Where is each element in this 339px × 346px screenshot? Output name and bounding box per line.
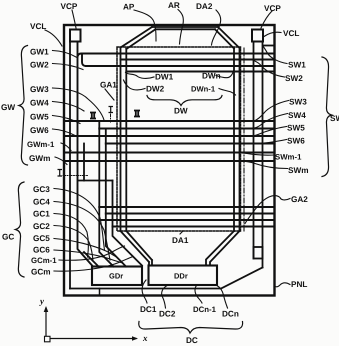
leader GW1 [53, 51, 78, 58]
svg-text:DWn: DWn [202, 72, 221, 81]
svg-text:x: x [142, 333, 148, 343]
panel PNL outline [64, 25, 275, 296]
svg-text:VCP: VCP [264, 4, 281, 13]
leader DA2 [212, 10, 221, 45]
svg-text:AR: AR [168, 1, 180, 10]
leader GC6 [54, 250, 123, 263]
svg-text:GW3: GW3 [30, 85, 49, 94]
leader DA1 [180, 231, 183, 234]
wire stair drop [83, 144, 85, 181]
brace DW [147, 96, 222, 106]
leader GC4 [54, 202, 110, 261]
svg-text:GWm-1: GWm-1 [27, 140, 55, 149]
section line GA2 dash-dot [243, 48, 245, 231]
brace GW [19, 46, 28, 166]
svg-text:GCm: GCm [31, 268, 51, 277]
wire VCL loop right vertical [262, 42, 264, 268]
pad VCP top-right [252, 30, 263, 42]
leader GC1 [54, 214, 88, 258]
svg-text:GC6: GC6 [33, 246, 50, 255]
leader VCP top-right [261, 11, 272, 28]
wire SW3 line [65, 120, 275, 122]
axis y arrow [45, 308, 47, 339]
svg-text:GW2: GW2 [30, 61, 49, 70]
svg-text:SW3: SW3 [289, 98, 307, 107]
array AR left verticals [121, 48, 127, 232]
svg-text:GDr: GDr [109, 272, 123, 281]
wire lower bus 1 [99, 206, 274, 208]
section line I left [63, 175, 88, 177]
wire E x99.3 [99, 121, 113, 267]
svg-text:GW5: GW5 [30, 113, 49, 122]
brace SW [322, 57, 332, 177]
leader AP [134, 10, 156, 41]
leader DC1 [142, 280, 147, 303]
array AR chamfer top-left [121, 27, 156, 49]
wire SW4 line [99, 128, 274, 130]
svg-text:GW: GW [1, 103, 15, 112]
svg-text:SWm-1: SWm-1 [275, 153, 302, 162]
marker I b [109, 107, 114, 113]
svg-text:GC1: GC1 [33, 210, 50, 219]
leader DWn-1 [219, 89, 236, 96]
wire VCL loop diagonal to right [221, 268, 263, 289]
leader AR [178, 10, 183, 45]
svg-text:SW2: SW2 [285, 74, 303, 83]
svg-text:GW1: GW1 [30, 48, 49, 57]
wire SW5 line [65, 135, 275, 137]
leader GCm-1 [59, 246, 125, 260]
section line GA1 dash-dot [110, 114, 112, 122]
leader GA1 [105, 89, 114, 100]
svg-text:SW4: SW4 [288, 111, 306, 120]
wire SW6 line [106, 143, 275, 145]
leader VCP top-left [72, 10, 76, 28]
leader SW3 [254, 101, 289, 122]
wire lower bus 4 [113, 226, 275, 228]
leader SW4 [250, 114, 288, 129]
svg-text:DW1: DW1 [155, 73, 174, 82]
leader DCn [216, 285, 228, 308]
leader GCm [54, 257, 133, 272]
wire GW C x76 [78, 42, 275, 267]
leader SWm [242, 161, 288, 168]
array AR right verticals [234, 48, 240, 231]
svg-text:SWm: SWm [288, 166, 308, 175]
svg-text:DC: DC [186, 336, 198, 345]
wire VCL loop bottom horizontal [70, 288, 221, 290]
svg-text:VCL: VCL [30, 22, 46, 31]
wire VCL loop left vertical [69, 42, 71, 289]
wire lower bus 3 [99, 219, 274, 221]
leader DW1 [126, 73, 155, 79]
pad small right bottom [254, 247, 263, 259]
svg-text:VCL: VCL [283, 29, 299, 38]
display area DA dashed rect [117, 47, 241, 231]
svg-text:DC2: DC2 [159, 310, 176, 319]
wire DW L2 [121, 59, 275, 61]
wire SWm-1 line [65, 152, 275, 154]
wire VCP right inner vertical [253, 42, 255, 259]
svg-text:GC5: GC5 [33, 234, 50, 243]
svg-text:GA2: GA2 [291, 195, 308, 204]
wire G x112.5 [113, 181, 143, 266]
svg-text:DC1: DC1 [140, 305, 157, 314]
brace GC [16, 182, 25, 277]
array AR outline top [152, 27, 218, 29]
leader SW1 [263, 46, 288, 64]
leader GC5 [54, 239, 117, 258]
svg-text:DCn-1: DCn-1 [193, 305, 217, 314]
leader GW5 [53, 116, 81, 124]
svg-text:VCP: VCP [61, 2, 78, 11]
driver GDr box [92, 267, 142, 286]
leader SW5 [246, 127, 287, 137]
svg-text:DCn: DCn [222, 310, 239, 319]
svg-text:SW1: SW1 [288, 61, 306, 70]
svg-text:DDr: DDr [174, 272, 188, 281]
leader DCn-1 [195, 285, 202, 303]
svg-text:GW4: GW4 [30, 99, 49, 108]
leader SWm-1 [236, 153, 275, 155]
svg-text:PNL: PNL [291, 280, 307, 289]
svg-text:GC4: GC4 [33, 198, 50, 207]
axis origin box [45, 336, 51, 342]
leader DWn [216, 71, 234, 78]
array AR chamfer bottom-right to DDr [206, 231, 240, 266]
wire fan extra [84, 252, 99, 267]
leader GWm-1 [61, 143, 71, 151]
brace DC [139, 322, 243, 334]
wire SWm line [65, 160, 275, 162]
axis x arrow [46, 338, 136, 340]
wire lower bus 2 [106, 213, 275, 215]
svg-text:SW5: SW5 [287, 124, 305, 133]
svg-text:AP: AP [123, 3, 135, 12]
leader GWm [55, 157, 67, 165]
array AR chamfer top-right [215, 27, 240, 49]
leader GW3 [53, 88, 105, 120]
marker II c [134, 111, 140, 117]
leader GC2 [54, 226, 93, 262]
wire DW L4 [126, 71, 274, 73]
svg-text:DW2: DW2 [146, 85, 165, 94]
marker II a [90, 113, 96, 119]
leader GW2 [53, 64, 84, 70]
svg-text:GCm-1: GCm-1 [31, 256, 57, 265]
svg-text:GWm: GWm [29, 154, 50, 163]
driver DDr box [149, 266, 218, 286]
wire stub below VCL bottom [99, 289, 101, 296]
leader VCL right [264, 32, 281, 36]
svg-text:GA1: GA1 [100, 81, 117, 90]
leader VCL left [45, 30, 62, 46]
svg-text:DWn-1: DWn-1 [191, 85, 216, 94]
leader DC2 [162, 285, 168, 308]
leader GW6 [53, 129, 76, 136]
svg-text:GC: GC [2, 233, 14, 242]
svg-text:GC3: GC3 [33, 185, 50, 194]
svg-text:GC2: GC2 [33, 222, 50, 231]
svg-text:DA2: DA2 [196, 2, 213, 11]
svg-text:DA1: DA1 [172, 236, 189, 245]
wire GW D x82 [82, 54, 275, 67]
leader SW2 [254, 61, 285, 78]
svg-text:SW: SW [330, 114, 339, 123]
wire F x105.8 [106, 129, 126, 267]
wire stair horizontal [78, 180, 113, 182]
leader GC3 [54, 189, 105, 251]
wire stub right top [263, 45, 275, 47]
array AR chamfer bottom-left to DDr [121, 231, 153, 266]
svg-text:GW6: GW6 [30, 126, 49, 135]
pad VCP top-left [70, 30, 81, 42]
leader DW2 [124, 80, 146, 90]
leader PNL [275, 283, 291, 287]
leader GW4 [53, 102, 85, 112]
svg-text:SW6: SW6 [287, 137, 305, 146]
svg-text:DW: DW [174, 107, 188, 116]
leader SW6 [242, 140, 287, 144]
marker I left [58, 170, 63, 177]
leader GA2 [245, 196, 290, 224]
